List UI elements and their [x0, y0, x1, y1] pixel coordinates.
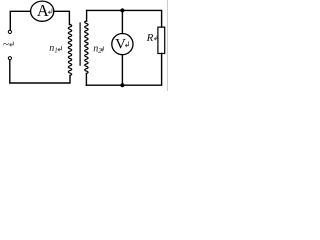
- svg-text:V: V: [115, 37, 126, 53]
- svg-text:R: R: [146, 32, 154, 44]
- svg-text:A: A: [37, 1, 49, 20]
- svg-text:~: ~: [3, 39, 9, 51]
